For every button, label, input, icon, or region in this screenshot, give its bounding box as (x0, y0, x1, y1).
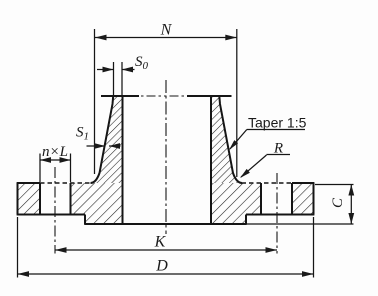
right bolt centerline (276, 173, 278, 254)
svg-text:S1: S1 (76, 125, 89, 143)
nxL right arrowhead (60, 157, 71, 163)
svg-text:N: N (160, 22, 173, 39)
left bolt hole right wall (70, 183, 72, 215)
K left arrowhead (55, 247, 67, 253)
flange right mid section with boss (hatched) (211, 183, 261, 224)
right bolt hole right wall (291, 183, 293, 215)
S0 left extension (113, 62, 115, 95)
R leader horizontal (267, 154, 291, 156)
N dimension line (95, 37, 237, 39)
left bolt centerline (54, 167, 56, 254)
S1 left arrowhead (94, 143, 105, 149)
C top arrowhead (348, 185, 354, 196)
C bottom arrowhead (348, 213, 354, 224)
neck top centerline (dash-dot) (141, 95, 184, 97)
flange top face right solid (292, 182, 314, 184)
S1 right arrowhead (109, 143, 120, 149)
N left extension line (94, 29, 96, 174)
flange top face over left bolt hole (dashed) (40, 182, 91, 184)
nxL right extension (70, 154, 72, 183)
svg-text:R: R (273, 141, 283, 157)
S0 right extension (121, 62, 123, 95)
S0 dimension line right tail (122, 69, 135, 71)
S1 dimension line left tail (87, 145, 106, 147)
flange bottom right (246, 214, 314, 216)
K right arrowhead (266, 247, 278, 253)
svg-text:C: C (330, 197, 346, 208)
boss step left (84, 215, 86, 225)
left bolt hole left wall (39, 183, 41, 215)
flange right outer ring section (hatched) (292, 183, 314, 215)
svg-text:K: K (154, 234, 167, 251)
S1 dimension line right tail (109, 145, 121, 147)
nxL left extension (39, 154, 41, 183)
left hub wall section (dense hatch) (91, 96, 123, 183)
S0 right arrowhead (122, 67, 133, 73)
hub right outer wall with taper and fillet (219, 96, 242, 183)
D right arrowhead (302, 271, 314, 277)
svg-text:S0: S0 (135, 54, 149, 72)
flange left mid section with boss (hatched) (71, 183, 123, 224)
neck top face left (101, 95, 139, 97)
right hub wall section (dense hatch) (211, 96, 242, 183)
hub left outer wall with taper and fillet (91, 96, 114, 183)
flange top face right (dashed over hub base and right bolt hole) (242, 182, 293, 184)
boss bottom face (84, 223, 247, 225)
bore left wall (122, 96, 124, 224)
Taper leader arrowhead (229, 140, 238, 150)
D left arrowhead (18, 271, 30, 277)
C bottom extension line (247, 223, 354, 225)
svg-text:D: D (155, 258, 168, 275)
Taper leader underline (247, 129, 305, 131)
N right arrowhead (225, 35, 237, 41)
flange bottom left (17, 214, 85, 216)
C top extension line (315, 184, 354, 186)
D right extension (313, 217, 315, 278)
D dimension line (18, 273, 314, 275)
flange left edge (17, 183, 19, 215)
Taper leader line (230, 130, 247, 150)
vertical centerline (165, 80, 167, 234)
D left extension (17, 217, 19, 278)
boss step right (245, 215, 247, 225)
nxL dimension line (40, 159, 71, 161)
N left arrowhead (95, 35, 107, 41)
K dimension line (55, 249, 277, 251)
S0 left arrowhead (103, 67, 114, 73)
bore right wall (210, 96, 212, 224)
N right extension line (236, 29, 238, 177)
svg-text:n×L: n×L (42, 144, 68, 160)
neck top face right (187, 95, 232, 97)
R leader arrowhead (240, 169, 250, 178)
flange right edge (313, 183, 315, 215)
S0 dimension line left tail (97, 69, 114, 71)
svg-text:Taper 1:5: Taper 1:5 (248, 115, 307, 131)
R leader line (241, 155, 267, 177)
right bolt hole left wall (260, 183, 262, 215)
flange left outer ring section (hatched) (18, 183, 41, 215)
flange top face left solid (17, 182, 40, 184)
nxL left arrowhead (40, 157, 51, 163)
C dimension line (350, 185, 352, 225)
